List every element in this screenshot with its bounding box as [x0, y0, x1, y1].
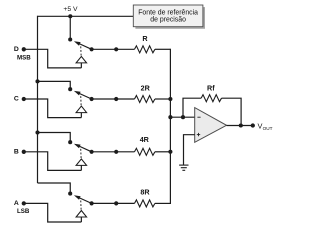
ground symbol	[179, 165, 188, 170]
reference source box (Fonte de referencia de precisao)	[133, 5, 205, 29]
switch SW2 pivot node	[68, 87, 72, 91]
resistor 8R	[135, 200, 155, 207]
dashed control line U1 to switch SW1	[80, 45, 82, 56]
op-amp inverting pin mark (-)	[197, 116, 200, 118]
node: bus junction row C	[168, 97, 172, 101]
wire: +5V rail branch to switch SW4 pivot	[38, 183, 71, 194]
wire: +5V rail branch to switch SW3 pivot	[38, 133, 71, 143]
wire: SW3 contact to resistor 4R	[92, 151, 135, 153]
node: rail junction for SW3	[35, 130, 39, 134]
switch SW1 pivot node	[68, 37, 72, 41]
svg-text:OUT: OUT	[263, 126, 273, 131]
input terminal C	[22, 97, 26, 101]
svg-text:8R: 8R	[140, 188, 150, 197]
wire: SW1 contact to resistor R	[92, 48, 135, 50]
resistor R	[135, 46, 155, 53]
wire: feedback up from inverting node	[183, 98, 201, 117]
svg-text:de precisão: de precisão	[150, 17, 186, 24]
node: SW1 contact	[90, 47, 94, 51]
resistor Rf	[201, 95, 221, 102]
resistor 2R	[135, 96, 155, 103]
input terminal D	[22, 47, 26, 51]
wire: resistor 8R to summing bus	[155, 202, 171, 204]
wire: summing node to op-amp inverting input	[170, 116, 194, 118]
wire: +5V feed down to switch SW1 pivot	[69, 16, 71, 39]
resistor 4R	[135, 148, 155, 155]
wire: Rf to output node	[222, 98, 242, 125]
node: SW4 contact	[90, 201, 94, 205]
node: bus junction row B	[168, 150, 172, 154]
node: SW2 contact	[90, 97, 94, 101]
node: feedback junction at inverting input	[181, 115, 185, 119]
svg-text:R: R	[142, 34, 148, 43]
switch SW1 arm	[74, 41, 92, 49]
input terminal B	[22, 150, 26, 154]
buffer U2 (level shifter, bit C)	[76, 106, 87, 118]
wire: +5V rail branch to switch SW2 pivot	[38, 81, 71, 89]
switch SW3 arm	[74, 144, 92, 152]
input terminal A	[22, 201, 26, 205]
node: junction row D	[114, 47, 118, 51]
wire: input D to buffer U1	[24, 49, 82, 68]
switch SW4 pivot node	[68, 192, 72, 196]
dashed control line U3 to switch SW3	[80, 148, 82, 159]
wire: resistor R to summing bus	[155, 48, 171, 50]
switch SW4 arm	[74, 195, 92, 203]
node: junction row A	[114, 201, 118, 205]
svg-text:D: D	[14, 46, 19, 53]
node: +5V junction above switch D	[68, 14, 72, 18]
wire: input C to buffer U2	[24, 99, 82, 118]
node: junction row B	[114, 150, 118, 154]
node: rail junction for SW2	[35, 79, 39, 83]
svg-text:Fonte de referência: Fonte de referência	[138, 9, 198, 16]
wire: resistor 2R to summing bus	[155, 98, 171, 100]
buffer U4 (level shifter, bit A)	[76, 211, 87, 223]
label VOUT	[258, 121, 273, 131]
wire: resistor 4R to summing bus	[155, 151, 171, 153]
op-amp U5	[195, 108, 227, 143]
buffer U1 (level shifter, bit D)	[76, 56, 87, 68]
svg-text:+5 V: +5 V	[63, 6, 78, 13]
svg-text:LSB: LSB	[17, 208, 30, 215]
wire: SW4 contact to resistor 8R	[92, 202, 135, 204]
node: junction row C	[114, 97, 118, 101]
wire: input B to buffer U3	[24, 152, 82, 171]
dashed control line U4 to switch SW4	[80, 199, 82, 210]
wire: non-inverting input to ground	[184, 135, 195, 165]
svg-text:C: C	[14, 96, 19, 103]
wire: op-amp output	[227, 125, 253, 127]
dashed control line U2 to switch SW2	[80, 95, 82, 106]
switch SW3 pivot node	[68, 140, 72, 144]
svg-text:A: A	[14, 200, 19, 207]
wire: summing bus vertical	[169, 49, 171, 204]
wire: SW2 contact to resistor 2R	[92, 98, 135, 100]
buffer U3 (level shifter, bit B)	[76, 159, 87, 171]
svg-text:Rf: Rf	[207, 83, 215, 92]
node: SW3 contact	[90, 150, 94, 154]
svg-text:4R: 4R	[140, 135, 150, 144]
output terminal VOUT	[251, 123, 255, 127]
node: bus junction to op-amp	[168, 115, 172, 119]
svg-text:MSB: MSB	[17, 55, 31, 62]
switch SW2 arm	[74, 91, 92, 99]
svg-text:2R: 2R	[141, 83, 151, 92]
wire: input A to buffer U4	[24, 203, 82, 222]
svg-text:B: B	[14, 149, 19, 156]
wire: +5V horizontal rail to reference box	[38, 15, 134, 17]
node: output junction with feedback	[239, 123, 243, 127]
op-amp non-inverting pin mark (+)	[197, 133, 200, 136]
wire: left vertical +5V rail	[37, 16, 39, 183]
